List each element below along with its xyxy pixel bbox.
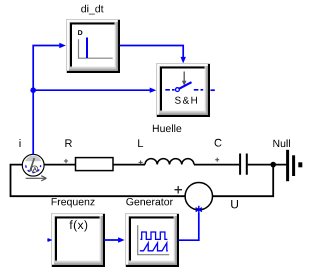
signal wire: ammeter tap up and right into di_dt input (blue) bbox=[33, 43, 66, 155]
wire: inductor L to capacitor C bbox=[194, 164, 239, 166]
signal wire: tap to Huelle S&H input (blue) bbox=[33, 88, 156, 93]
junction node (C / Null / U) bbox=[270, 162, 276, 168]
label i bbox=[20, 139, 21, 147]
icon of Generator: axis, square wave, sawtooth wave bbox=[138, 225, 170, 254]
polarity mark + of C bbox=[215, 158, 219, 162]
wire: resistor R to inductor L bbox=[113, 164, 146, 166]
label L bbox=[138, 139, 143, 147]
label Huelle bbox=[153, 124, 181, 132]
junction node of signal tap (blue) bbox=[30, 87, 36, 93]
wire: capacitor C to node, on to ground Null bbox=[248, 164, 287, 166]
label U bbox=[231, 200, 238, 208]
label di_dt bbox=[81, 5, 103, 15]
label R bbox=[65, 139, 72, 147]
wire: ammeter left terminal, down left side, along bottom to source U bbox=[11, 165, 186, 197]
capacitor C bbox=[240, 154, 247, 175]
polarity mark + of L bbox=[139, 160, 143, 164]
resistor R bbox=[76, 158, 114, 171]
signal stub: Huelle S&H output pin (blue) bbox=[211, 89, 215, 91]
polarity mark + of U bbox=[175, 186, 183, 194]
block Huelle (sample and hold S&H) bbox=[156, 63, 210, 117]
label Null bbox=[273, 139, 290, 147]
signal stub: Frequenz input pin (blue) bbox=[47, 238, 52, 242]
block Frequenz bbox=[51, 213, 105, 267]
icon of di_dt: axis, impulse, letter D bbox=[78, 30, 113, 58]
label Generator bbox=[126, 198, 173, 205]
signal wire: Generator output right and up to source U control pin (blue) bbox=[179, 213, 199, 241]
signal wire: di_dt output down into Huelle S&H clock input (blue) bbox=[120, 46, 186, 64]
icon of Frequenz: f(x) bbox=[70, 220, 88, 231]
current direction arrow of ammeter i bbox=[26, 176, 47, 181]
star connection marker at source U (blue) bbox=[196, 206, 202, 214]
ground Null bbox=[288, 150, 301, 181]
ammeter i bbox=[22, 154, 44, 176]
wire: ammeter right terminal to resistor R bbox=[44, 164, 76, 166]
label C bbox=[215, 139, 222, 147]
inductor L bbox=[145, 159, 194, 165]
polarity mark + of R bbox=[64, 159, 68, 163]
wire: node down and left to source U right terminal bbox=[213, 165, 274, 197]
block di_dt (differentiator) bbox=[66, 19, 120, 73]
voltage source U bbox=[185, 183, 212, 210]
icon of Huelle: clock arrow, sample switch, S&H text bbox=[165, 72, 203, 104]
signal wire: Frequenz output to Generator input (blue) bbox=[104, 237, 125, 242]
block Generator bbox=[125, 213, 179, 267]
label Frequenz bbox=[52, 198, 95, 207]
